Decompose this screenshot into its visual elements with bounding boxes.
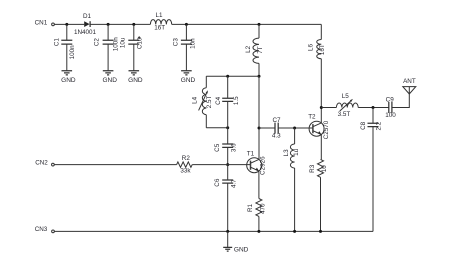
inductor L5 variable — [336, 93, 358, 118]
inductor L3 — [283, 128, 300, 231]
svg-text:R2: R2 — [182, 155, 191, 162]
node junction ground tap — [226, 230, 229, 233]
svg-text:C2926: C2926 — [260, 156, 267, 175]
svg-text:L6: L6 — [308, 44, 315, 52]
connector CN2 — [35, 160, 54, 167]
svg-text:4.7: 4.7 — [230, 179, 237, 188]
svg-text:C2: C2 — [93, 38, 100, 47]
svg-text:T2: T2 — [308, 113, 316, 120]
ground below C2 — [102, 71, 117, 84]
node junction L2 bottom — [258, 75, 261, 78]
capacitor C2 — [93, 24, 119, 70]
wire CN1 to D1 anode — [54, 23, 84, 25]
transistor T1 — [247, 150, 267, 175]
diode D1 — [74, 13, 97, 36]
wire T2 emitter to R3 — [320, 135, 322, 160]
svg-text:10n: 10n — [189, 38, 196, 49]
svg-text:2.2: 2.2 — [376, 121, 383, 130]
wire tank top — [206, 75, 259, 77]
capacitor C1 — [54, 24, 76, 70]
node junction C3 top — [185, 23, 188, 26]
ground below C10 — [128, 71, 143, 84]
node junction L3 bottom — [293, 230, 296, 233]
capacitor C7 — [272, 117, 281, 139]
svg-text:L3: L3 — [283, 149, 290, 157]
svg-text:GND: GND — [61, 77, 76, 84]
capacitor C8 — [360, 108, 382, 232]
svg-text:100: 100 — [385, 112, 396, 119]
node junction R3 bottom — [319, 230, 322, 233]
wire L5 row — [321, 107, 336, 109]
wire R3 to bottom rail — [320, 177, 322, 231]
wire CN2 to R2 — [54, 164, 176, 166]
svg-text:100n: 100n — [69, 45, 76, 60]
wire R2 to T1 base — [192, 164, 250, 166]
node junction R1 bottom — [257, 230, 260, 233]
connector CN3 — [35, 226, 55, 233]
wire L1 to top-right corner — [172, 23, 322, 25]
node junction C1 top — [65, 23, 68, 26]
resistor R3 — [309, 159, 328, 177]
svg-text:16T: 16T — [154, 25, 165, 32]
svg-text:C3: C3 — [173, 38, 180, 47]
wire L2 junction down to T1 collector — [258, 76, 260, 159]
svg-text:2.5T: 2.5T — [206, 96, 213, 109]
node junction C2 top — [107, 23, 110, 26]
svg-text:CN1: CN1 — [35, 19, 48, 26]
capacitor C9 — [385, 96, 396, 119]
capacitor C4 — [215, 76, 240, 128]
svg-text:ANT: ANT — [403, 78, 416, 85]
node junction L5 tap — [320, 106, 323, 109]
svg-text:1u: 1u — [293, 148, 300, 156]
wire R1 to bottom rail — [258, 216, 260, 231]
ground below C1 — [61, 71, 76, 84]
wire bottom rail — [54, 230, 373, 232]
wire tank bottom — [206, 127, 227, 129]
svg-text:7T: 7T — [257, 46, 264, 54]
inductor L4 variable — [191, 76, 213, 128]
svg-text:L1: L1 — [156, 12, 164, 19]
svg-text:GND: GND — [181, 77, 196, 84]
wire C9 to antenna — [392, 94, 409, 108]
wire L5 to C9 — [358, 107, 389, 109]
wire T1 emitter to R1 — [258, 171, 260, 199]
svg-text:R3: R3 — [309, 164, 316, 173]
connector CN1 — [35, 19, 55, 26]
inductor L6 — [308, 24, 326, 123]
node junction C7 wire — [258, 127, 261, 130]
transistor T2 — [308, 113, 330, 139]
node junction C8 top — [372, 106, 375, 109]
svg-text:L5: L5 — [342, 93, 350, 100]
svg-text:GND: GND — [234, 247, 249, 254]
ground below C3 — [181, 71, 196, 84]
svg-text:10: 10 — [321, 165, 328, 173]
svg-text:16T: 16T — [319, 44, 326, 55]
svg-text:C6: C6 — [214, 178, 221, 187]
svg-text:100n: 100n — [112, 37, 119, 52]
wire C7 row — [259, 127, 313, 129]
svg-text:CN3: CN3 — [35, 226, 48, 233]
svg-text:GND: GND — [128, 77, 143, 84]
svg-text:1.5: 1.5 — [233, 96, 240, 105]
capacitor C6 — [214, 165, 237, 232]
wire C8 column joins rail corner — [372, 226, 374, 231]
svg-text:33k: 33k — [180, 167, 191, 174]
svg-text:T1: T1 — [247, 150, 255, 157]
svg-text:CN2: CN2 — [35, 160, 48, 167]
antenna ANT — [403, 78, 416, 94]
node junction L2 top — [258, 23, 261, 26]
svg-text:10u: 10u — [120, 37, 127, 48]
ground GND bottom — [223, 231, 248, 253]
svg-text:GND: GND — [102, 77, 117, 84]
inductor L1 — [150, 12, 171, 31]
svg-text:C10: C10 — [137, 37, 144, 49]
inductor L2 — [245, 24, 264, 76]
node junction L3 top — [293, 127, 296, 130]
node junction base wire — [226, 163, 229, 166]
node junction C10 top — [132, 23, 135, 26]
svg-text:C2570: C2570 — [323, 120, 330, 139]
svg-text:470: 470 — [260, 203, 267, 214]
svg-text:C8: C8 — [360, 121, 367, 130]
svg-text:R1: R1 — [247, 203, 254, 212]
node junction C4 top — [226, 75, 229, 78]
svg-text:3.6: 3.6 — [231, 143, 238, 152]
svg-text:D1: D1 — [83, 13, 92, 20]
svg-text:4.3: 4.3 — [272, 132, 281, 139]
svg-text:L2: L2 — [245, 45, 252, 53]
svg-text:C4: C4 — [215, 96, 222, 105]
svg-text:3.5T: 3.5T — [338, 111, 351, 118]
svg-text:C5: C5 — [214, 143, 221, 152]
capacitor C10 polarized 10u — [120, 24, 144, 70]
svg-text:C1: C1 — [54, 38, 61, 47]
resistor R2 — [177, 155, 193, 174]
svg-text:1N4001: 1N4001 — [74, 29, 97, 36]
capacitor C5 — [214, 128, 238, 165]
svg-text:L4: L4 — [191, 96, 198, 104]
svg-text:C9: C9 — [386, 96, 395, 103]
node junction tank bottom — [226, 126, 229, 129]
resistor R1 — [247, 199, 267, 217]
svg-text:C7: C7 — [272, 117, 281, 124]
wire D1 cathode to L1 — [90, 23, 150, 25]
capacitor C3 — [173, 24, 197, 70]
